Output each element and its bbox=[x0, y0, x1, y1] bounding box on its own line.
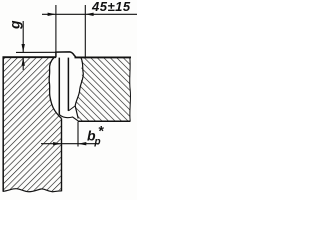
dimension bp*: left arrow (outside, points right) bbox=[53, 142, 61, 145]
svg-text:*: * bbox=[99, 123, 105, 139]
left plate top surface bbox=[3, 56, 57, 58]
dimension bp*: dim line bbox=[41, 143, 99, 145]
right plate top surface bbox=[75, 56, 132, 58]
weld cap (reinforcement) bbox=[56, 52, 76, 58]
original edge line left (slot edge) bbox=[58, 58, 60, 115]
dimension 45±15: left arrow (outside, points right) bbox=[48, 13, 56, 16]
dimension 45±15: right arrow (outside, points left) bbox=[85, 13, 93, 16]
dimension g: extension line from cap top bbox=[16, 51, 56, 53]
weld root bottom bbox=[59, 115, 78, 121]
dimension bp*: right arrow (outside, points left) bbox=[78, 142, 86, 145]
dimension g: up arrow bbox=[22, 58, 25, 66]
dimension 45±15: extension line right (to surface) bbox=[84, 5, 86, 57]
svg-text:g: g bbox=[7, 20, 23, 30]
right plate hatched body bbox=[75, 58, 130, 121]
dimension g: down arrow bbox=[22, 44, 25, 52]
dimension g: vertical dim line above bbox=[22, 21, 24, 52]
dimension 45±15: dim line bbox=[42, 13, 137, 15]
left plate hatched body bbox=[3, 57, 62, 192]
weld root right slant bbox=[68, 106, 75, 111]
right plate right break edge bbox=[129, 57, 132, 121]
original edge line right (slot edge) bbox=[67, 58, 69, 111]
right plate bottom edge bbox=[78, 120, 131, 122]
left plate lower right edge bbox=[61, 119, 63, 192]
weld fusion boundary left (wavy) bbox=[49, 58, 61, 119]
svg-text:45±15: 45±15 bbox=[91, 0, 131, 14]
dimension bp*: extension line from plate corner bbox=[77, 122, 79, 147]
left plate bottom break line bbox=[3, 189, 62, 192]
dimension 45±15: extension line left (to cap corner) bbox=[55, 5, 57, 52]
weld fusion boundary right (wavy) bbox=[75, 58, 83, 119]
left plate left edge bbox=[2, 57, 4, 192]
dimension g: lower line into plate bbox=[22, 58, 24, 71]
